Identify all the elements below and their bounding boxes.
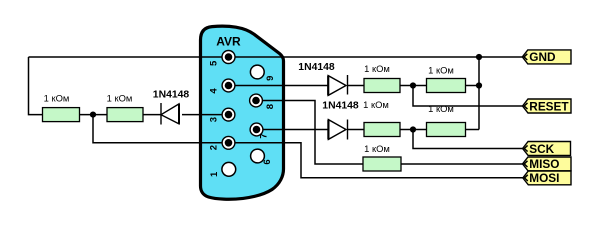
svg-text:1 кОм: 1 кОм [428,65,454,76]
svg-text:MOSI: MOSI [529,171,559,185]
svg-text:GND: GND [529,50,556,64]
svg-text:1 кОм: 1 кОм [428,103,454,114]
svg-text:2: 2 [209,145,220,150]
svg-text:1 кОм: 1 кОм [107,92,133,103]
svg-text:1: 1 [209,171,220,177]
svg-text:9: 9 [265,76,276,81]
svg-text:1N4148: 1N4148 [322,101,359,112]
svg-text:3: 3 [209,117,220,122]
svg-text:8: 8 [265,104,276,109]
svg-text:1 кОм: 1 кОм [364,143,390,154]
svg-text:MISO: MISO [529,157,559,171]
svg-text:1N4148: 1N4148 [153,90,190,101]
svg-text:1 кОм: 1 кОм [364,63,390,74]
svg-text:1 кОм: 1 кОм [363,99,389,110]
svg-text:4: 4 [209,88,220,94]
svg-text:6: 6 [262,159,273,164]
svg-text:RESET: RESET [529,99,569,113]
svg-text:1N4148: 1N4148 [298,62,335,73]
svg-text:AVR: AVR [216,34,241,48]
svg-text:SCK: SCK [529,142,554,156]
svg-text:1 кОм: 1 кОм [44,92,70,103]
svg-text:5: 5 [209,60,220,66]
svg-text:7: 7 [259,133,270,138]
